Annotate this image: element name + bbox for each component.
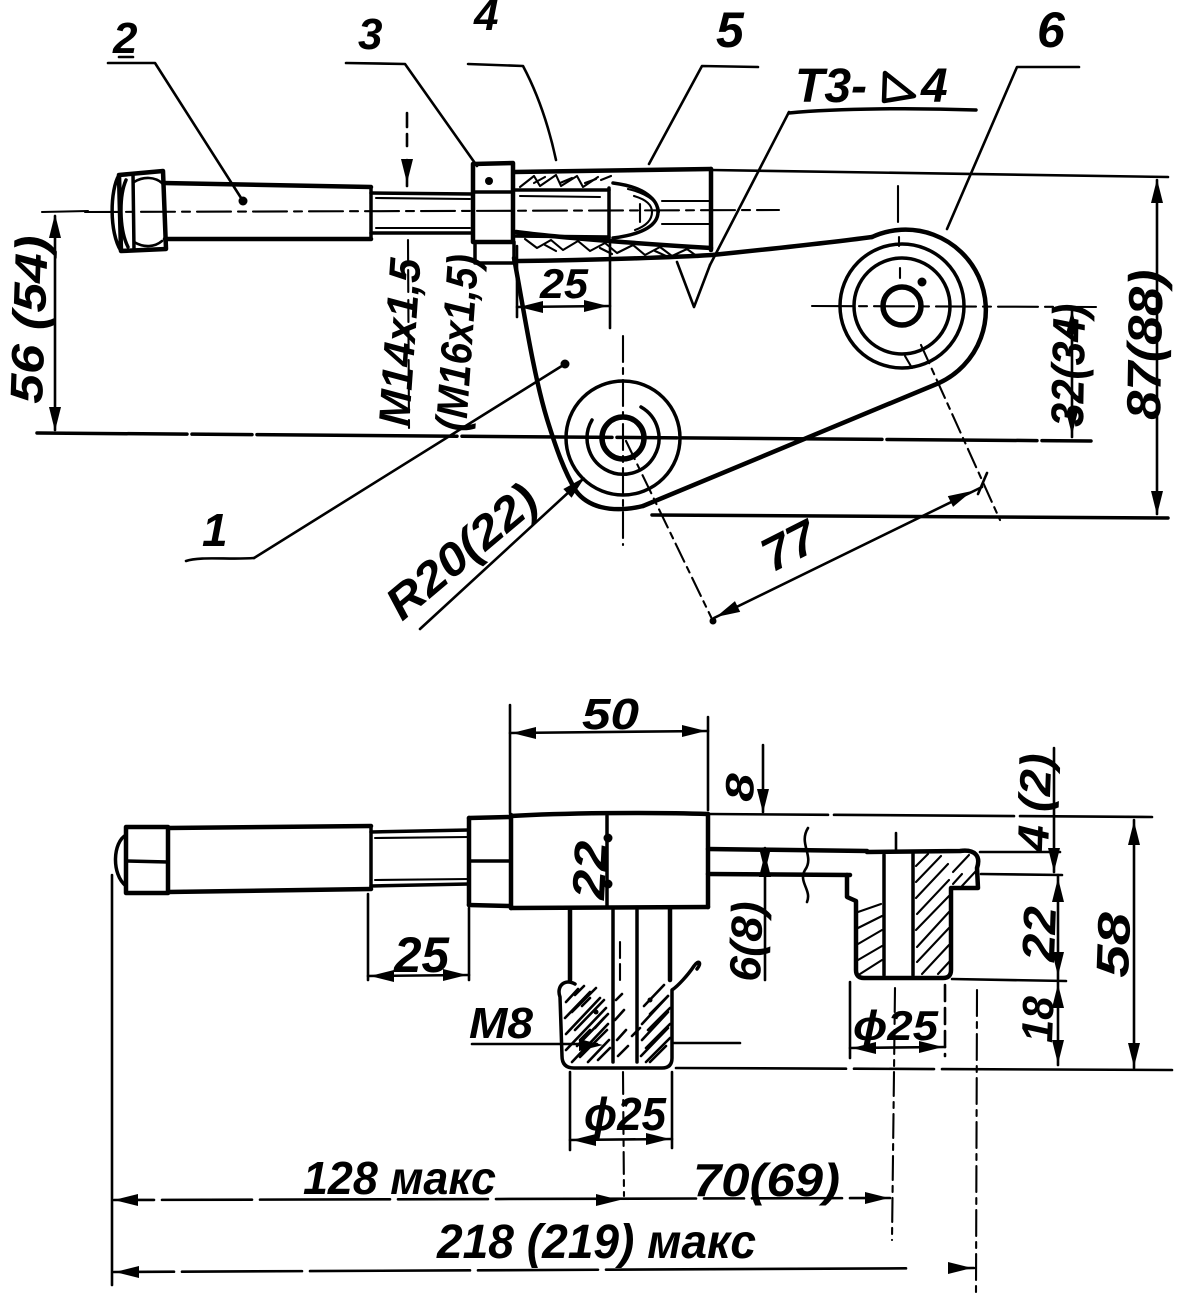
right boss vertical centerline dashes — [898, 186, 912, 368]
svg-text:25: 25 — [393, 927, 450, 983]
left extension line x112 — [111, 875, 114, 1285]
dimension 87 (88) bottom extension — [652, 515, 1168, 518]
svg-text:87(88): 87(88) — [1118, 269, 1174, 420]
svg-text:M8: M8 — [469, 999, 534, 1048]
label 3 leader — [346, 63, 477, 166]
svg-text:128 макс: 128 макс — [303, 1152, 496, 1204]
washer (bottom view) — [469, 817, 511, 906]
bushing phi25 dimension line — [850, 1047, 945, 1048]
dimension 25 (bottom view) — [367, 894, 370, 980]
dimension 4 (2) line — [1053, 748, 1056, 872]
svg-text:4: 4 — [920, 60, 948, 113]
socket part 4/5 outline (top view) — [514, 169, 711, 250]
svg-text:25: 25 — [539, 260, 589, 307]
dimension 87 (88) line — [1156, 180, 1159, 514]
arm bottom edge — [708, 874, 850, 875]
M8 boss hatch — [565, 985, 670, 1062]
left circle middle arc — [587, 407, 659, 474]
bolt rod inside socket — [514, 188, 609, 239]
block part (bottom view) — [511, 813, 708, 908]
bushing hatch — [858, 854, 976, 974]
svg-text:22: 22 — [1012, 905, 1066, 963]
right boss inner hole — [883, 287, 921, 325]
dimension 22 (bushing depth) — [1057, 875, 1060, 979]
svg-text:70(69): 70(69) — [693, 1154, 840, 1206]
label 6 leader — [947, 67, 1079, 229]
boss phi25 dimension line — [570, 1139, 672, 1140]
lever plate left edge — [514, 258, 643, 509]
bushing axis centerline — [895, 833, 898, 851]
M8 boss stray dots — [594, 1010, 599, 1015]
dimension line 218 (y=1271) — [114, 1268, 974, 1272]
svg-text:3: 3 — [358, 10, 382, 59]
M8 stem walls — [570, 908, 670, 980]
dimension 18 — [1057, 981, 1060, 1065]
bolt shaft (bottom view) — [168, 826, 371, 892]
svg-text:1: 1 — [202, 504, 228, 556]
boss phi25 extensions — [569, 1072, 572, 1150]
dimension 56 (54) — [42, 211, 88, 212]
socket internal cone — [613, 183, 659, 238]
label 4 leader — [468, 64, 556, 160]
svg-text:2: 2 — [112, 14, 138, 63]
socket wall hatch scribble (top band) — [520, 175, 611, 187]
dimension 58 — [1133, 820, 1136, 1068]
bolt hex head (bottom view) — [115, 827, 168, 893]
dimension 50 — [509, 705, 512, 813]
M8 hole walls — [613, 910, 637, 1062]
bushing bottom extension — [952, 979, 1066, 981]
overall right extension line x977 — [976, 990, 977, 1292]
bolt threaded section (bottom view) — [371, 830, 469, 886]
dimension 77 line — [714, 487, 982, 618]
svg-text:56 (54): 56 (54) — [0, 235, 58, 405]
svg-text:6: 6 — [1037, 2, 1066, 58]
svg-text:22: 22 — [562, 839, 617, 901]
svg-text:50: 50 — [582, 690, 640, 739]
dimension 87 (88) top extension — [711, 170, 1168, 177]
dimension 77 extension A (from left hole center) — [626, 441, 712, 619]
right boss dot mark — [918, 278, 927, 287]
bolt hex head (top view) — [112, 171, 166, 251]
socket wall hatch scribble (bottom band) — [525, 239, 698, 257]
lever outer arc around right boss — [872, 230, 986, 383]
block top edge extension line — [708, 814, 1152, 817]
bolt axis centerline (top view) — [85, 210, 779, 212]
long bottom extension line y1068 — [676, 1068, 1172, 1070]
thread spec extension dash — [408, 240, 409, 428]
collar part 3 (top view) — [473, 163, 514, 263]
dimension 4 (2) extensions — [980, 851, 1060, 854]
bushing flange and body outline — [847, 851, 978, 978]
label 2 leader — [108, 63, 243, 201]
bolt shaft (top view) — [163, 183, 371, 239]
dimension 32(34) — [1071, 308, 1074, 437]
bushing axis centerline (lower) — [892, 988, 895, 1240]
M8 leader line with arrow — [472, 1043, 597, 1046]
left circle inner hole — [602, 417, 644, 459]
svg-text:4 (2): 4 (2) — [1009, 753, 1061, 854]
bolt threaded section (top view) — [371, 193, 472, 233]
dimension 77 extension B (from right hole center) — [921, 345, 1000, 520]
arm break squiggle — [803, 828, 808, 902]
right boss circle r62 — [840, 244, 964, 368]
svg-text:5: 5 — [716, 2, 745, 58]
svg-text:ϕ25: ϕ25 — [853, 1002, 939, 1049]
M8 boss outline (broken-out section) — [559, 962, 700, 1068]
right boss circle r48 — [854, 258, 950, 354]
bushing bore walls — [884, 853, 913, 975]
arm top edge — [708, 849, 867, 851]
baseline 56 extension (long horizontal) — [37, 433, 1091, 441]
svg-text:8: 8 — [718, 772, 763, 802]
left circle boss outer — [566, 381, 680, 495]
svg-text:32(34): 32(34) — [1041, 303, 1095, 427]
boss axis centerline — [619, 942, 621, 980]
radius leader with arrow — [420, 479, 583, 629]
dimension 8 (step) — [762, 745, 765, 812]
dimension 25 (top view) — [516, 246, 519, 317]
dimension 6(8) — [764, 848, 767, 980]
svg-text:4: 4 — [473, 0, 498, 40]
weld leader with tick — [710, 112, 789, 265]
lever plate top edge — [519, 237, 872, 261]
collar center dot — [485, 177, 493, 185]
svg-text:58: 58 — [1086, 911, 1140, 978]
svg-text:ϕ25: ϕ25 — [584, 1088, 667, 1140]
svg-text:18: 18 — [1013, 995, 1064, 1043]
bushing phi25 extensions — [849, 982, 852, 1058]
svg-text:218 (219) макс: 218 (219) макс — [436, 1216, 756, 1269]
label 1 leader — [186, 558, 254, 561]
label 5 leader — [649, 66, 758, 164]
socket bore lines right of cone — [662, 201, 709, 224]
dimension line 128/70 (y=1200) — [114, 1198, 890, 1200]
left circle vertical centerline — [622, 336, 624, 545]
thread leader arrow (M14) — [406, 113, 409, 186]
right boss horizontal centerline — [812, 306, 1096, 307]
svg-text:6(8): 6(8) — [721, 901, 773, 983]
weld spec underline — [789, 109, 976, 113]
svg-text:T3-: T3- — [795, 60, 867, 113]
lever plate bottom edge — [643, 383, 939, 506]
